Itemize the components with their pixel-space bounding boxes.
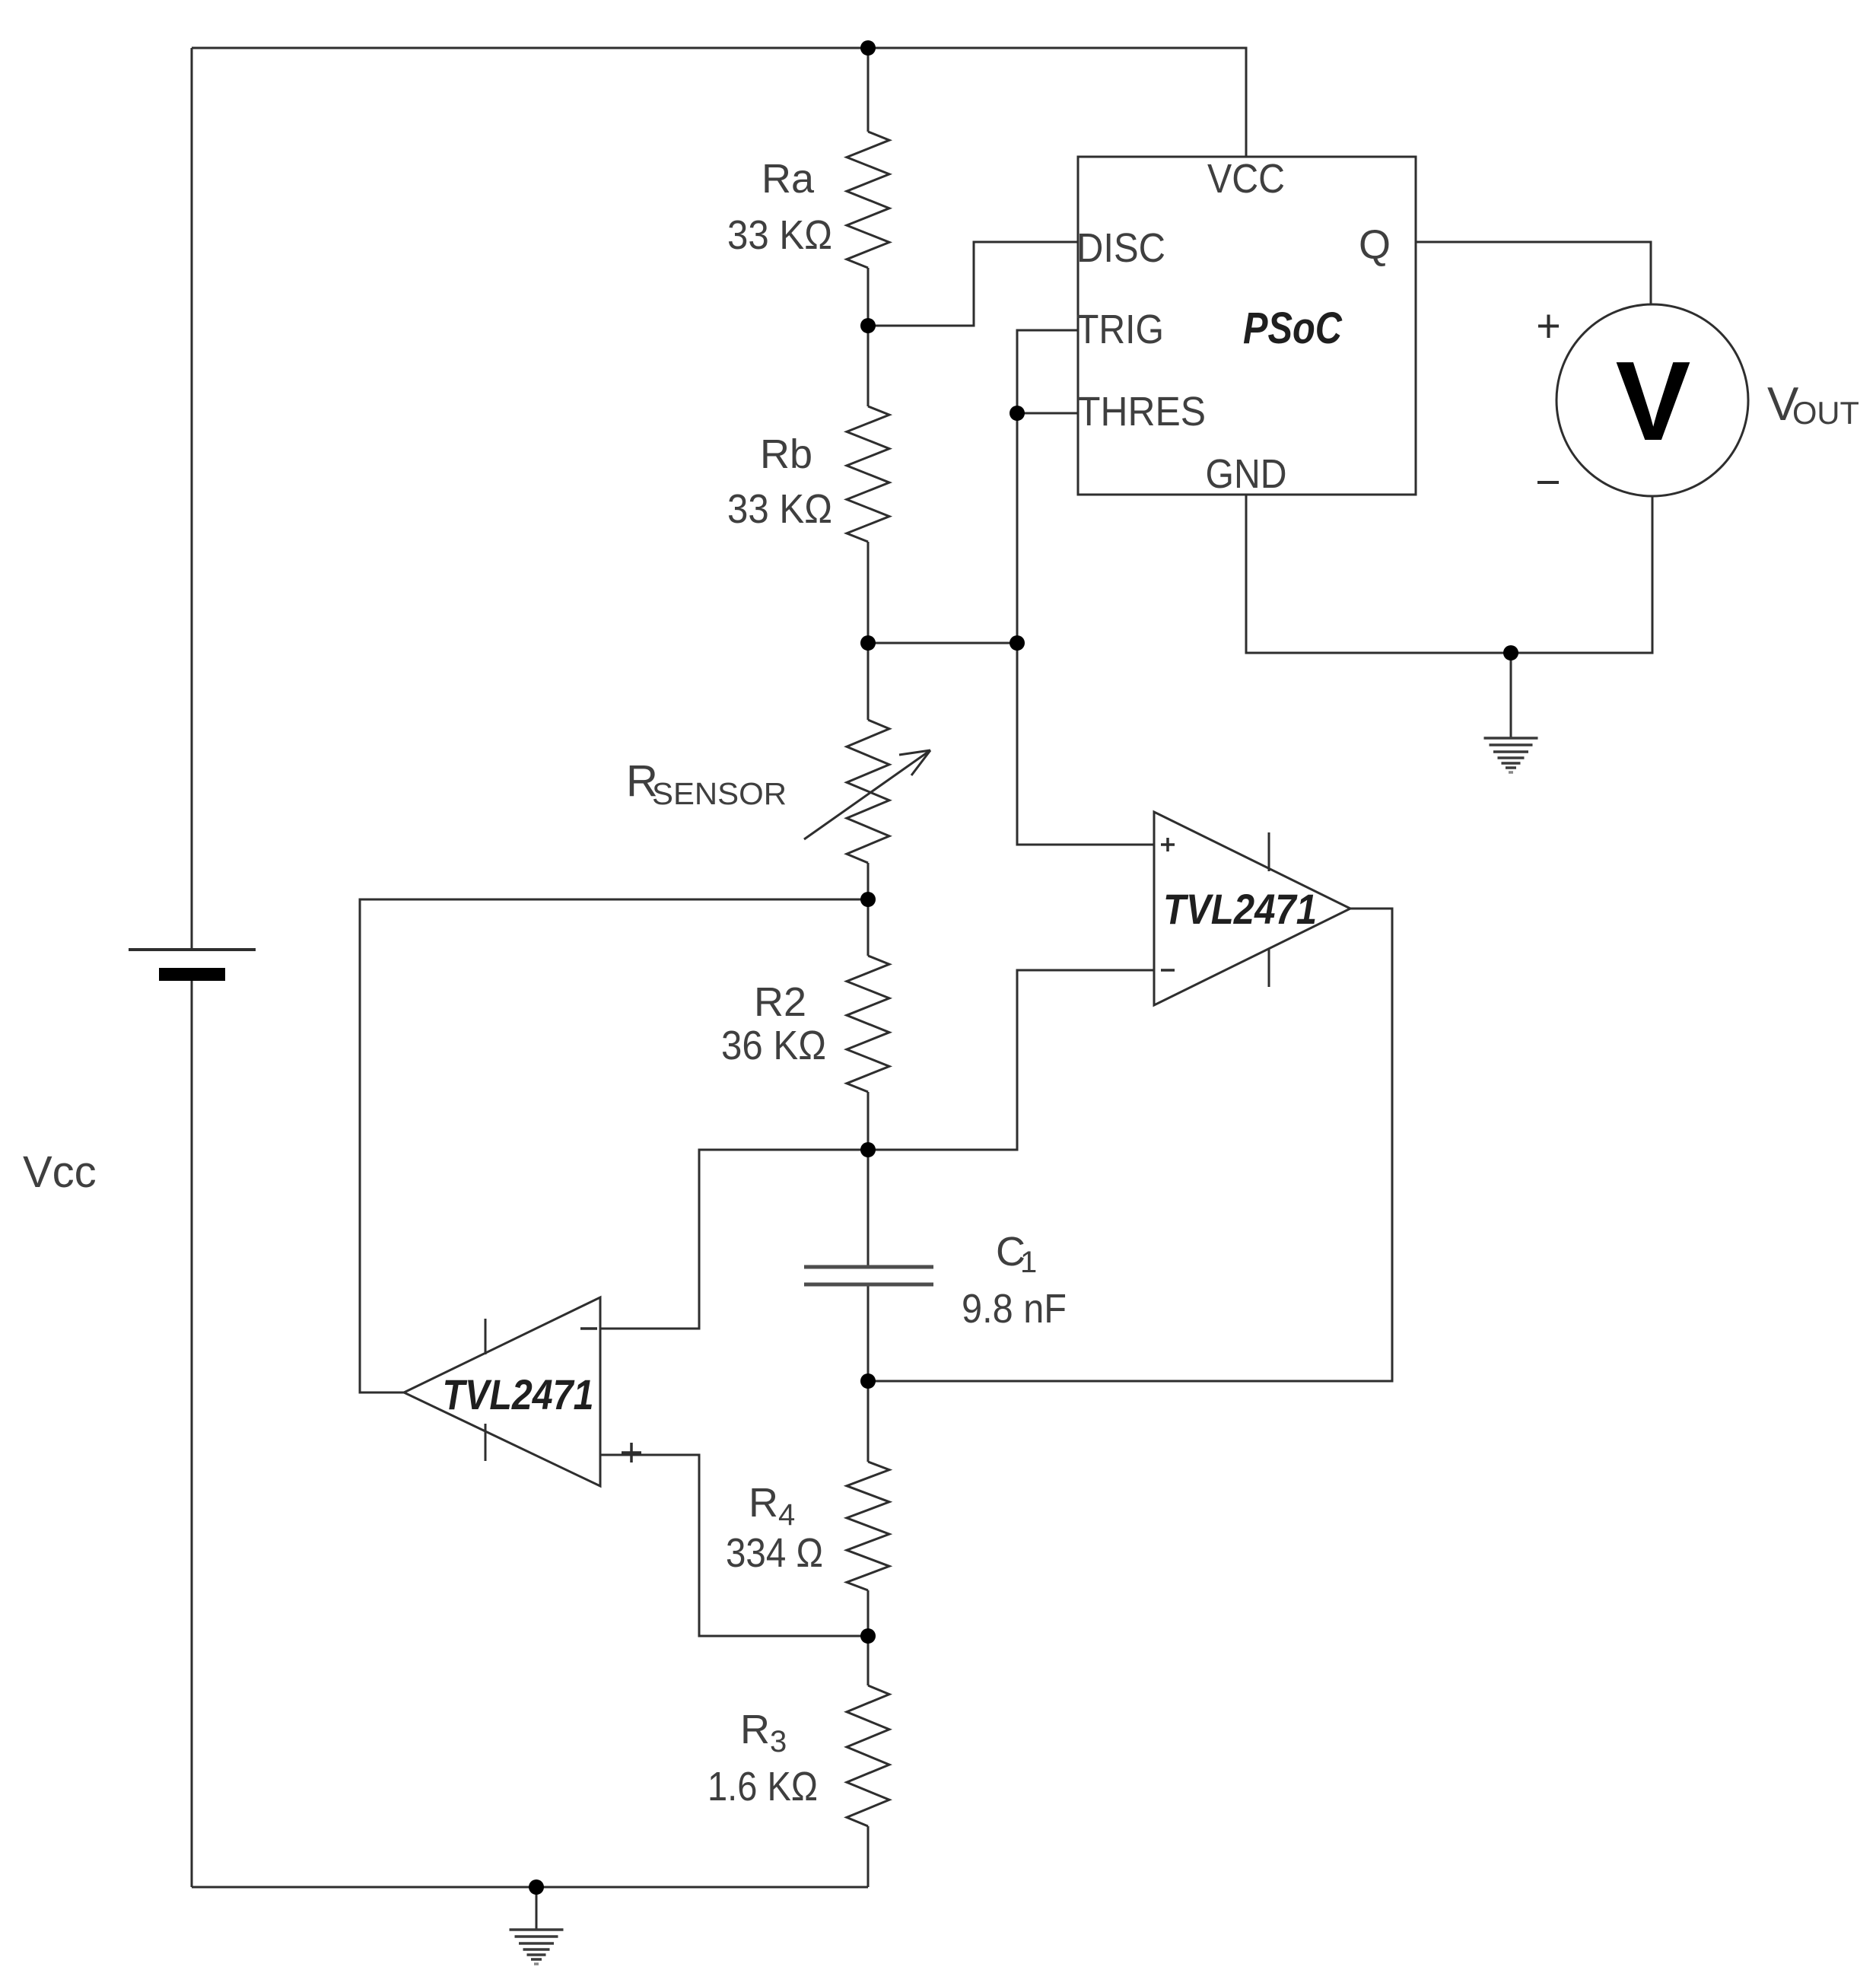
svg-text:SENSOR: SENSOR (652, 776, 787, 811)
svg-text:Ra: Ra (762, 156, 815, 202)
svg-text:Q: Q (1359, 222, 1391, 268)
svg-text:PSoC: PSoC (1243, 304, 1343, 353)
svg-text:Vcc: Vcc (23, 1147, 97, 1197)
svg-text:TRIG: TRIG (1076, 307, 1164, 352)
svg-text:1.6 KΩ: 1.6 KΩ (707, 1764, 818, 1809)
svg-text:GND: GND (1206, 451, 1287, 497)
svg-text:Rb: Rb (760, 431, 812, 477)
svg-text:1: 1 (1020, 1246, 1037, 1279)
svg-text:36 KΩ: 36 KΩ (721, 1023, 826, 1068)
svg-text:334 Ω: 334 Ω (726, 1530, 823, 1576)
svg-text:4: 4 (778, 1498, 795, 1532)
svg-text:R2: R2 (754, 979, 806, 1025)
svg-text:33 KΩ: 33 KΩ (727, 486, 832, 532)
svg-text:V: V (1616, 339, 1691, 464)
svg-text:R: R (740, 1707, 770, 1752)
svg-text:TVL2471: TVL2471 (1163, 885, 1317, 933)
svg-text:9.8 nF: 9.8 nF (962, 1286, 1067, 1332)
svg-text:3: 3 (770, 1725, 787, 1758)
svg-text:TVL2471: TVL2471 (443, 1370, 594, 1418)
svg-text:33 KΩ: 33 KΩ (727, 212, 832, 258)
svg-text:VCC: VCC (1207, 156, 1285, 202)
svg-text:THRES: THRES (1077, 389, 1206, 434)
svg-text:OUT: OUT (1792, 395, 1859, 431)
svg-text:DISC: DISC (1076, 225, 1165, 271)
svg-text:R: R (749, 1480, 778, 1526)
